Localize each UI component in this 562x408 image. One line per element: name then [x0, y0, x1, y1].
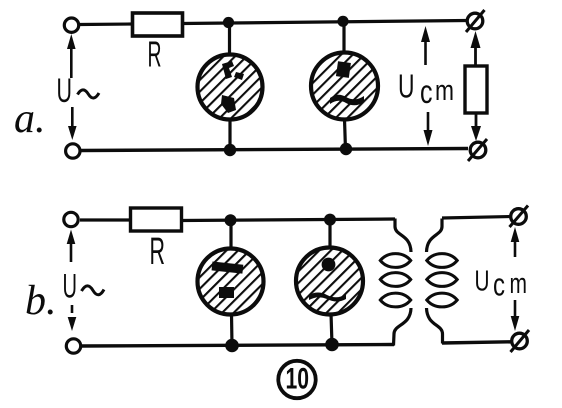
wire (bottom rail, circuit a) [81, 149, 468, 151]
svg-text:R: R [148, 34, 162, 75]
lamp HL1 (circuit a) [198, 55, 263, 120]
terminal T4b (bottom-right, circuit b) [511, 330, 530, 352]
transformer secondary winding L2 [427, 219, 458, 344]
wire (lamp1 bottom stem, circuit a) [228, 119, 231, 151]
junction (lamp1 bottom, circuit a) [224, 144, 236, 156]
svg-text:U: U [475, 266, 490, 298]
arrow (Ucm down, circuit a) [424, 112, 433, 146]
svg-text:U: U [57, 72, 73, 110]
lamp HL4 (circuit b) [296, 248, 363, 315]
wire (lamp2 bottom stem, circuit b) [331, 313, 332, 345]
wire (top rail, circuit a) [182, 21, 467, 24]
wire (bottom rail, circuit b) [81, 345, 394, 347]
junction (lamp1 top, circuit a) [223, 17, 234, 28]
svg-text:a.: a. [14, 96, 46, 142]
resistor R (circuit b) [131, 208, 182, 231]
terminal T3a (top-right, circuit a) [466, 10, 485, 32]
svg-text:c: c [493, 267, 505, 303]
terminal T4a (bottom-right, circuit a) [468, 139, 487, 161]
wire (secondary bottom, circuit b) [442, 342, 512, 343]
terminal T2a (bottom-left, circuit a) [66, 144, 80, 158]
resistor R (circuit a) [133, 13, 183, 36]
label Ucm (circuit a) [398, 68, 454, 111]
arrow (source up, circuit b) [67, 230, 76, 263]
wire (T1a to R, circuit a) [80, 22, 133, 26]
svg-text:10: 10 [286, 363, 310, 396]
wire (lamp2 top stem, circuit a) [342, 22, 345, 55]
arrow (load bottom, circuit a) [471, 113, 481, 141]
arrow (Ucm up, circuit a) [421, 26, 430, 65]
junction (lamp1 top, circuit b) [225, 214, 237, 226]
svg-text:b.: b. [25, 278, 57, 324]
lamp HL2 (circuit a) [311, 53, 378, 120]
svg-text:U: U [398, 68, 415, 105]
wire (secondary top, circuit b) [442, 217, 511, 219]
junction (lamp2 top, circuit b) [324, 214, 336, 226]
terminal T2b (bottom-left, circuit b) [66, 339, 80, 353]
wire (lamp1 top stem, circuit a) [228, 23, 231, 57]
wire (lamp1 bottom stem, circuit b) [230, 314, 234, 346]
wire (T1b to R, circuit b) [80, 218, 131, 221]
label U~ (circuit a) [57, 72, 100, 110]
wire (top rail, circuit b) [181, 219, 395, 221]
resistor Rload (circuit a) [465, 66, 487, 113]
wire (lamp1 top stem, circuit b) [229, 221, 232, 252]
arrow (source up, circuit a) [67, 34, 76, 78]
arrow (Ucm down, circuit b) [511, 300, 520, 331]
label Ucm (circuit b) [475, 266, 528, 303]
svg-text:m: m [510, 268, 528, 300]
junction (lamp2 bottom, circuit b) [325, 338, 339, 352]
arrow (source down, circuit b) [68, 305, 77, 331]
svg-text:U: U [63, 268, 78, 306]
svg-text:R: R [150, 231, 166, 273]
svg-text:m: m [435, 75, 454, 107]
junction (lamp2 bottom, circuit a) [340, 143, 352, 155]
junction (lamp1 bottom, circuit b) [225, 339, 239, 353]
lamp HL3 (circuit b) [198, 249, 264, 315]
arrow (Ucm up, circuit b) [511, 227, 520, 257]
terminal T1a (top-left, circuit a) [64, 18, 78, 32]
terminal T1b (top-left, circuit b) [64, 212, 78, 226]
transformer primary winding L1 [380, 219, 411, 346]
arrow (source down, circuit a) [68, 107, 77, 140]
wire (lamp2 top stem, circuit b) [328, 220, 331, 259]
wire (lamp2 bottom stem, circuit a) [345, 119, 346, 150]
arrow (load top, circuit a) [471, 31, 481, 67]
figure number 10 [278, 361, 315, 398]
terminal T3b (top-right, circuit b) [510, 206, 529, 228]
label U~ (circuit b) [63, 268, 105, 306]
junction (lamp2 top, circuit a) [337, 16, 348, 27]
svg-text:c: c [420, 73, 433, 110]
